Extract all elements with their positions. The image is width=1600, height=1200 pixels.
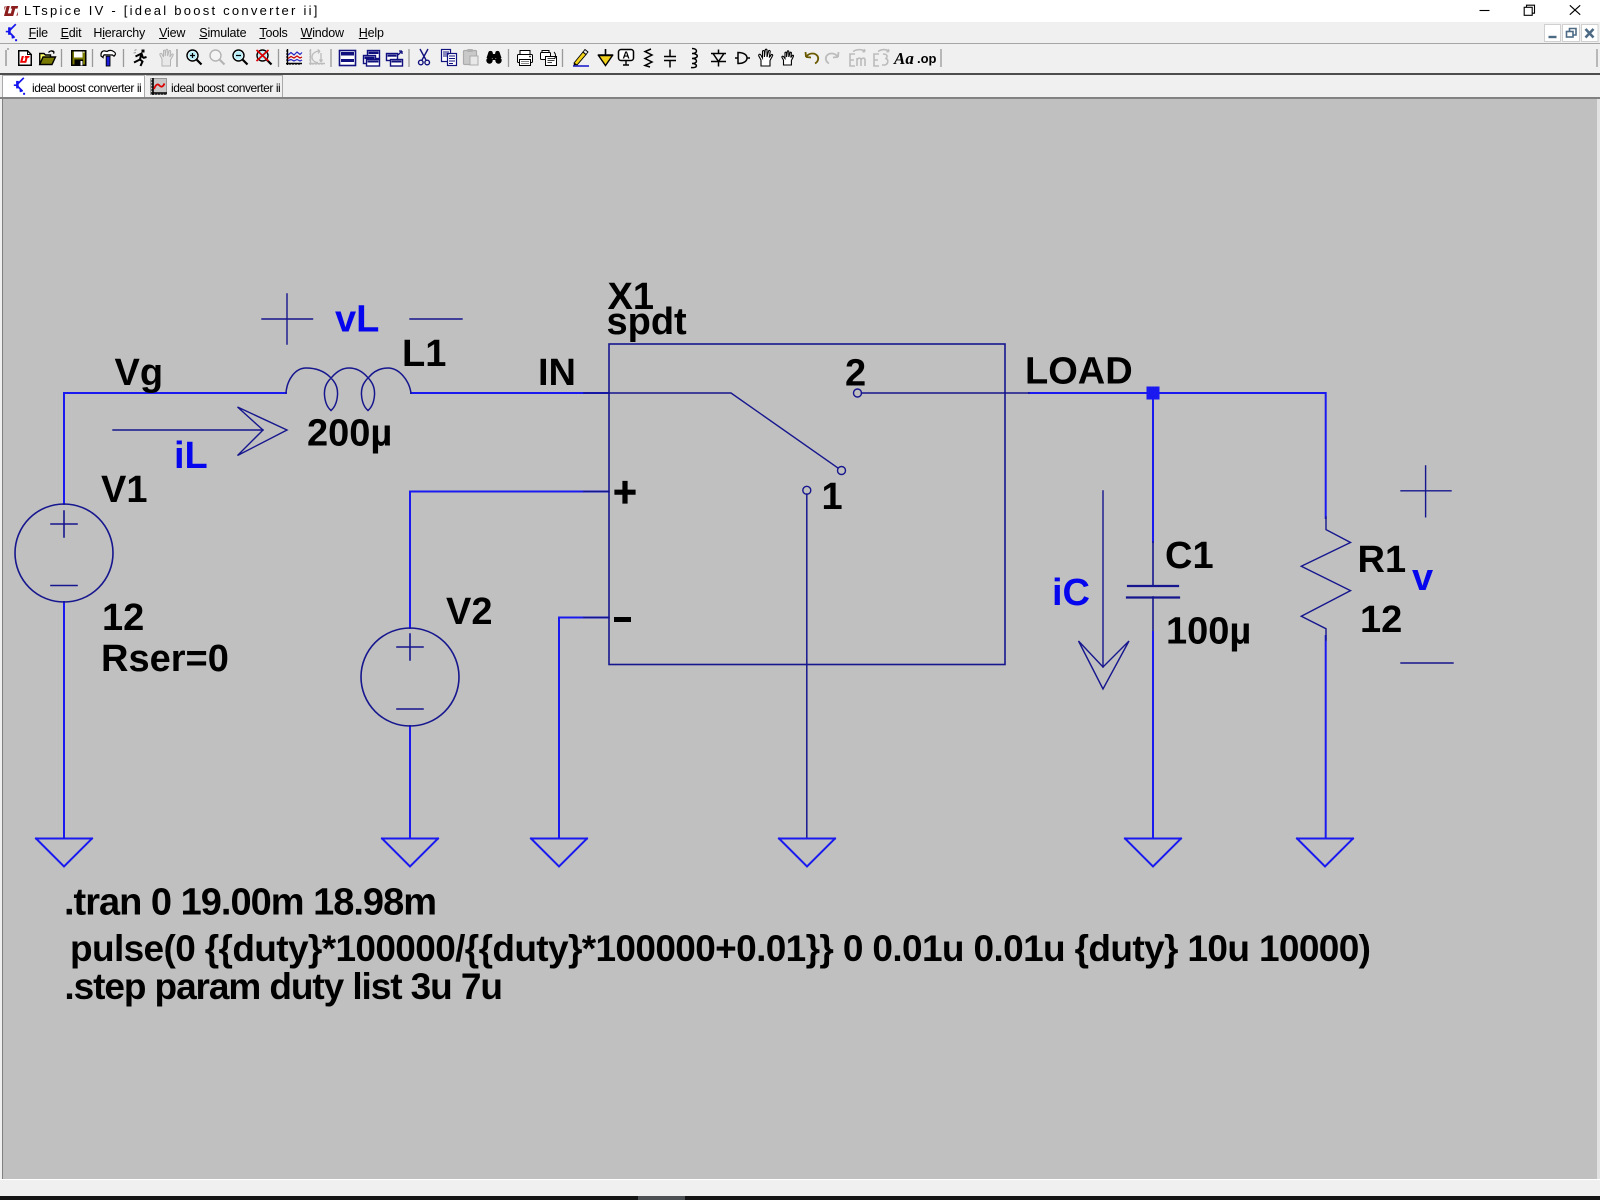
icon zoom extents [257, 50, 272, 65]
ground (V2) [382, 839, 438, 867]
LT logo [4, 6, 18, 16]
resistor R1 zigzag [1301, 517, 1350, 640]
icon zoom out [233, 50, 248, 65]
wire C1 bottom to ground [1152, 632, 1154, 838]
svg-text:pulse(0 {{duty}*100000/{{duty}: pulse(0 {{duty}*100000/{{duty}*100000+0.… [70, 928, 1371, 969]
svg-text:Vg: Vg [115, 352, 164, 394]
icon resistor [645, 49, 652, 67]
wire V1 top [63, 393, 65, 504]
icon undo [806, 52, 819, 64]
annotation plus cross (vL) [262, 294, 313, 344]
switch X1 box [609, 344, 1005, 665]
voltage source V1 [15, 504, 113, 602]
icon paste (disabled) [464, 49, 479, 65]
icon inductor [691, 49, 697, 68]
icon halt hand (disabled) [160, 49, 173, 66]
switch pin IN lead [584, 392, 609, 394]
icon print [518, 51, 533, 66]
svg-text:12: 12 [102, 597, 144, 639]
icon tile horizontal [340, 51, 356, 66]
wire pin1 down to ground [806, 494, 808, 838]
switch pin LOAD lead [1005, 392, 1029, 394]
svg-text:200µ: 200µ [307, 413, 392, 455]
svg-text:C1: C1 [1165, 535, 1214, 577]
svg-text:12: 12 [1360, 599, 1402, 641]
icon zoom back (disabled) [210, 50, 225, 65]
wire pin2 to junction to R1 corner [1029, 393, 1326, 518]
pin label + [617, 484, 633, 502]
toolbar separators [62, 49, 1598, 67]
icon mirror Em (disabled) [850, 49, 865, 66]
node LOAD junction [1147, 387, 1160, 400]
svg-text:IN: IN [538, 352, 576, 394]
switch pin 1 circle [803, 486, 811, 494]
icon cascade [387, 51, 403, 66]
svg-text:R1: R1 [1358, 539, 1407, 581]
svg-text:LOAD: LOAD [1025, 351, 1133, 393]
icon wire pencil [573, 50, 589, 67]
annotation iL arrow head [238, 407, 288, 456]
svg-text:vL: vL [335, 299, 379, 341]
wire V2 bottom to ground [409, 726, 411, 838]
ground (V1) [36, 839, 92, 867]
icon find [486, 51, 501, 64]
icon capacitor [664, 50, 676, 68]
switch pin 2 circle [854, 389, 862, 397]
svg-text:2: 2 [845, 353, 866, 395]
annotation iL arrow shaft [113, 429, 263, 431]
icon new schematic [19, 51, 32, 66]
svg-text:iL: iL [174, 435, 208, 477]
ground (R1) [1297, 839, 1353, 867]
caption minimize [1480, 10, 1490, 12]
wire R1 bottom to ground [1325, 636, 1327, 838]
icon tile vertical [364, 51, 380, 67]
icon print preview [541, 51, 557, 66]
ground (pin1) [779, 839, 835, 867]
icon control panel hammer [101, 50, 115, 66]
switch pin 2 lead [862, 392, 1006, 394]
svg-text:Rser=0: Rser=0 [101, 638, 229, 680]
icon zoom in [187, 50, 202, 65]
svg-text:v: v [1412, 557, 1433, 599]
svg-text:.step param duty list 3u 7u: .step param duty list 3u 7u [64, 966, 503, 1007]
switch pin plus lead [584, 491, 609, 493]
tab1 schematic icon [14, 78, 25, 95]
capacitor C1 top lead [1152, 542, 1154, 585]
icon autorange (disabled) [309, 49, 325, 65]
capacitor C1 bottom lead [1152, 597, 1154, 632]
icon move hand [759, 49, 773, 66]
icon diode [711, 50, 726, 67]
wire junction to C1 top [1152, 397, 1154, 542]
annotation iC arrow head [1079, 641, 1130, 689]
svg-text:L1: L1 [402, 333, 446, 375]
icon cut [419, 49, 430, 65]
wire V2 top [409, 492, 411, 629]
annotation iC arrow shaft [1102, 491, 1104, 667]
caption close [1570, 5, 1580, 14]
svg-text:V2: V2 [446, 591, 492, 633]
MDI close button [1582, 25, 1599, 42]
svg-text:1: 1 [822, 476, 843, 518]
icon copy [442, 50, 457, 66]
icon waveform pane [286, 49, 302, 65]
tab2 waveform icon [151, 78, 168, 95]
annotation plus cross (v, right) [1401, 466, 1451, 517]
annotation minus (vL) [410, 318, 462, 320]
switch lever [609, 393, 838, 468]
inductor L1 [286, 368, 411, 411]
ground (minus wire) [531, 839, 587, 867]
switch pin minus lead [584, 617, 609, 619]
MDI restore button [1563, 25, 1580, 42]
switch lever tip circle [838, 467, 846, 475]
icon save [72, 51, 86, 66]
wire Vg rail left [64, 392, 286, 394]
caption restore [1524, 5, 1534, 15]
icon redo (disabled) [826, 52, 839, 64]
wire V2 plus to switch [410, 491, 608, 493]
icon component [735, 53, 750, 64]
svg-text:V1: V1 [101, 469, 147, 511]
ground (C1) [1125, 839, 1181, 867]
svg-text:100µ: 100µ [1166, 611, 1251, 653]
annotation minus (v, right) [1401, 662, 1453, 664]
wire V1 bottom to ground [63, 602, 65, 838]
svg-text:spdt: spdt [607, 301, 688, 343]
toolbar grip [6, 49, 9, 66]
svg-text:iC: iC [1052, 572, 1090, 614]
icon ground symbol [598, 49, 613, 66]
icon net label [619, 50, 634, 66]
pin label - [617, 617, 629, 622]
icon open [40, 51, 56, 65]
app icon schematic [6, 24, 17, 41]
wire minus terminal to ground [559, 618, 608, 839]
icon drag hand [782, 51, 794, 65]
voltage source V2 [361, 628, 459, 726]
icon rotate E3 (disabled) [874, 49, 889, 66]
MDI minimize button [1545, 25, 1561, 42]
capacitor C1 plates [1128, 585, 1178, 587]
icon run man [134, 50, 147, 67]
svg-text:.tran 0 19.00m 18.98m: .tran 0 19.00m 18.98m [64, 882, 437, 924]
wire inductor to switch [411, 392, 609, 394]
